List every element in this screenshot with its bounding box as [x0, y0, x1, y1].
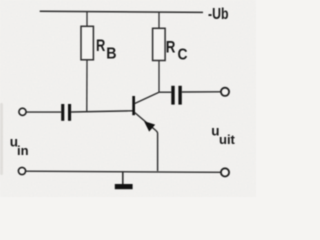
bottom rail wire — [26, 171, 220, 172]
ground terminal (bottom left circle) — [18, 167, 25, 174]
input terminal (top left circle) — [19, 108, 26, 115]
transistor T1 emitter lead — [135, 112, 157, 130]
wire C2 to output terminal — [182, 91, 221, 93]
svg-text:C: C — [178, 47, 188, 64]
capacitor C2 (output coupling) — [171, 86, 181, 105]
wire rail to RB top — [86, 11, 88, 26]
transistor T1 emitter arrow (PNP, points to base) — [145, 122, 154, 131]
capacitor C1 (input coupling) — [61, 104, 71, 121]
wire collector node to C2 — [159, 91, 171, 93]
svg-text:R: R — [166, 38, 176, 57]
label u_uit — [211, 124, 235, 148]
svg-text:-Ub: -Ub — [208, 6, 229, 23]
wire RB bottom to base node — [86, 60, 88, 112]
transistor T1 collector lead — [135, 92, 160, 103]
wire emitter to bottom rail — [156, 131, 158, 171]
wire rail to RC top — [158, 12, 160, 28]
wire input terminal to C1 — [27, 111, 62, 113]
power rail -Ub (top horizontal wire) — [40, 11, 203, 12]
svg-text:B: B — [106, 45, 116, 62]
svg-text:uit: uit — [219, 132, 236, 147]
ground symbol — [115, 184, 133, 189]
label RB — [96, 36, 117, 62]
wire RC bottom to collector node — [158, 61, 160, 93]
ground stub wire — [122, 171, 124, 184]
svg-text:in: in — [17, 143, 29, 158]
svg-text:R: R — [96, 36, 105, 55]
transistor T1 base bar — [132, 96, 135, 115]
wire C1 to base (node with RB) — [71, 111, 133, 112]
resistor RC — [153, 28, 166, 60]
ground terminal (bottom right circle) — [221, 168, 229, 176]
label RC — [166, 38, 188, 64]
resistor RB — [81, 26, 93, 60]
output terminal (top right circle) — [221, 88, 229, 96]
label u_in — [10, 134, 29, 158]
